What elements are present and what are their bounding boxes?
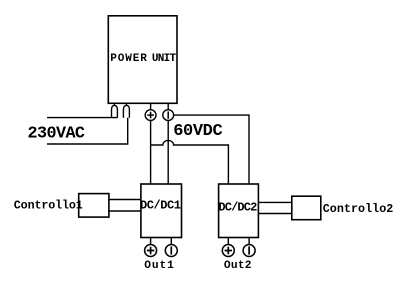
svg-text:Out2: Out2 [224, 260, 252, 272]
svg-text:Controllo2: Controllo2 [323, 202, 394, 216]
svg-text:POWERUNIT: POWERUNIT [110, 53, 176, 65]
svg-text:230VAC: 230VAC [28, 124, 86, 143]
svg-text:DC/DC2: DC/DC2 [218, 201, 257, 215]
svg-text:60VDC: 60VDC [173, 122, 223, 141]
svg-text:DC/DC1: DC/DC1 [140, 199, 181, 213]
svg-text:Out1: Out1 [144, 260, 174, 272]
svg-text:Controllo1: Controllo1 [14, 199, 83, 213]
